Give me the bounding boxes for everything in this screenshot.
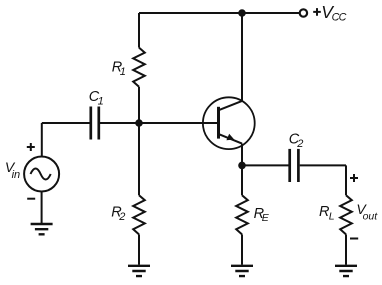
svg-text:1: 1: [120, 66, 126, 78]
svg-text:1: 1: [98, 96, 104, 108]
svg-text:CC: CC: [332, 11, 347, 23]
svg-text:2: 2: [118, 211, 125, 223]
svg-text:2: 2: [296, 138, 303, 150]
svg-text:E: E: [262, 212, 270, 224]
svg-text:in: in: [12, 169, 21, 181]
svg-text:L: L: [329, 211, 335, 223]
svg-text:out: out: [363, 211, 379, 223]
